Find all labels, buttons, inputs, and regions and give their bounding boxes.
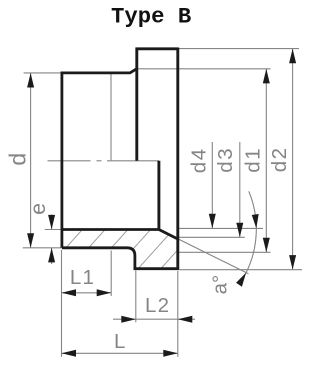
svg-text:L: L — [114, 330, 125, 353]
svg-text:a°: a° — [209, 275, 232, 295]
svg-text:Type B: Type B — [111, 4, 191, 30]
svg-text:L1: L1 — [70, 266, 95, 289]
svg-text:L2: L2 — [145, 294, 170, 317]
svg-text:d1: d1 — [242, 147, 265, 173]
svg-text:e: e — [27, 203, 50, 215]
svg-text:d3: d3 — [214, 147, 237, 173]
svg-text:d: d — [5, 153, 31, 166]
svg-text:d2: d2 — [268, 146, 291, 172]
svg-text:d4: d4 — [187, 147, 210, 173]
